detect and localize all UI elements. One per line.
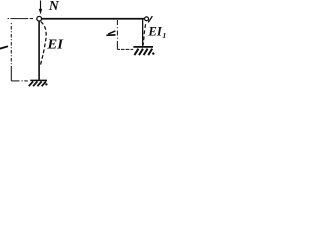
svg-text:EI: EI bbox=[147, 24, 163, 38]
svg-text:N: N bbox=[48, 0, 60, 13]
svg-text:EI: EI bbox=[46, 37, 64, 52]
svg-text:1: 1 bbox=[162, 31, 166, 40]
